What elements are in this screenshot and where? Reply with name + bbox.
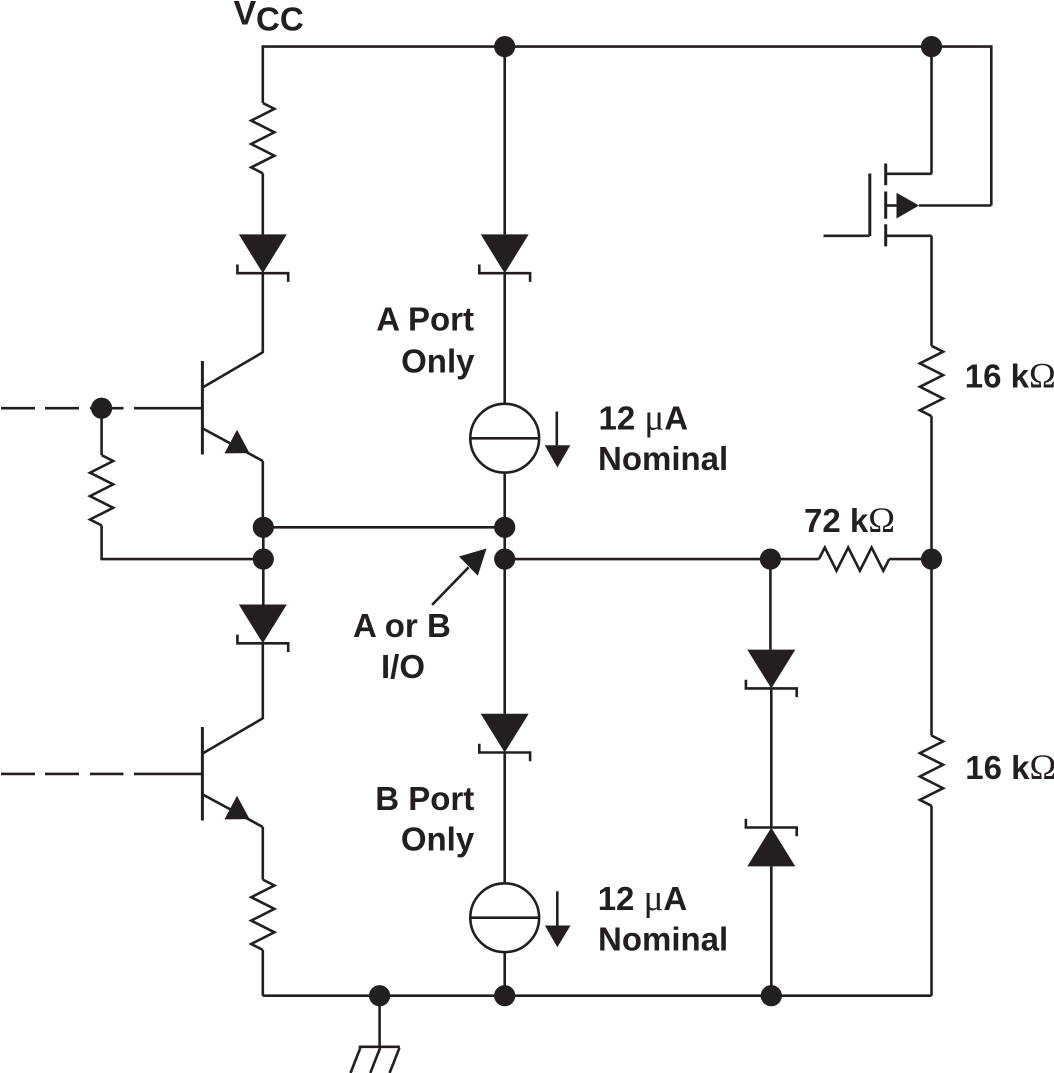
svg-text:12 μA: 12 μA — [598, 878, 688, 919]
svg-text:I/O: I/O — [381, 648, 425, 685]
transistor M1 (p-channel MOSFET) — [824, 164, 932, 247]
diode D4 (Schottky, B port) — [479, 714, 530, 762]
wire input dashed upper — [1, 407, 124, 410]
resistor R1 — [251, 103, 274, 173]
label 12 uA Nominal (A) — [598, 398, 728, 477]
wire R2 to lower node row — [102, 525, 264, 559]
ground — [351, 996, 400, 1073]
wire middle node down to D4 — [503, 559, 506, 714]
wire D1 to Q1 collector — [261, 273, 264, 353]
wire between left nodes down to D3 — [262, 527, 265, 604]
node junction ground — [369, 985, 390, 1006]
diode D6 (Schottky, up) — [746, 819, 797, 867]
label A Port Only — [376, 301, 475, 380]
node junction left lower — [253, 549, 274, 570]
diode D2 (Schottky, A port) — [479, 234, 530, 282]
wire D3 to Q2 collector — [261, 643, 264, 719]
wire R1 to D1 — [261, 173, 264, 234]
wire body to VCC loop — [919, 45, 991, 205]
wire right node down to D5 — [769, 559, 772, 650]
wire middle nodes vertical — [503, 527, 506, 559]
diode D3 (Schottky, anode up) — [237, 605, 288, 653]
svg-text:Only: Only — [401, 821, 475, 858]
label B Port Only — [375, 780, 475, 858]
svg-text:CC: CC — [256, 1, 304, 38]
wire input dashed lower — [1, 773, 124, 776]
resistor R6 (72k horizontal) — [819, 548, 889, 571]
arrow A or B I/O pointer — [432, 549, 486, 605]
svg-text:16 kΩ: 16 kΩ — [965, 747, 1054, 787]
wire VCC top rail — [263, 45, 992, 48]
wire Q2 emitter down to R5 — [261, 827, 264, 880]
label 12 uA Nominal (B) — [598, 878, 728, 957]
resistor R5 — [251, 880, 274, 950]
wire R3 to right node — [930, 416, 933, 559]
svg-text:12 μA: 12 μA — [599, 398, 689, 439]
wire M1 source to R3 — [930, 236, 933, 346]
wire right node down to R4 — [930, 559, 933, 735]
current source CS1 — [470, 404, 539, 473]
wire Q1 emitter down — [261, 461, 264, 527]
node input upper junction — [91, 398, 112, 419]
node junction top right — [921, 36, 942, 57]
wire base lead Q1 — [134, 407, 202, 410]
wire base lead Q2 — [134, 773, 202, 776]
label A or B I/O — [353, 607, 451, 685]
transistor Q2 (PNP lower) — [202, 718, 262, 827]
node junction middle upper — [494, 517, 515, 538]
svg-text:16 kΩ: 16 kΩ — [965, 356, 1054, 396]
current source CS2 — [470, 883, 539, 952]
arrow current direction CS1 — [545, 412, 571, 468]
node junction right mid right — [921, 549, 942, 570]
wire upper crossbar — [263, 526, 504, 529]
svg-text:Nominal: Nominal — [598, 921, 728, 958]
svg-text:A Port: A Port — [376, 301, 474, 338]
wire CS2 to bottom rail — [503, 952, 506, 996]
wire VCC to D2 — [503, 47, 506, 235]
diode D5 (Schottky, down) — [746, 650, 797, 698]
node junction bottom middle — [494, 985, 515, 1006]
wire lower crossbar to right — [505, 558, 771, 561]
wire R5 to bottom rail — [261, 950, 264, 996]
resistor R4 — [920, 736, 943, 806]
wire VCC right down to M1 drain — [930, 47, 933, 174]
resistor R3 — [920, 346, 943, 416]
diode D1 (Schottky, anode up) — [237, 234, 288, 282]
wire R4 to bottom rail — [930, 806, 933, 996]
wire VCC down to R1 — [261, 45, 264, 103]
wire left lead R6 — [770, 558, 819, 561]
node junction right mid left — [760, 549, 781, 570]
svg-text:Nominal: Nominal — [598, 440, 728, 477]
node junction middle lower — [494, 549, 515, 570]
wire D5 to D6 — [770, 688, 773, 827]
wire CS1 to middle nodes — [503, 473, 506, 528]
wire D4 to CS2 — [503, 753, 506, 884]
transistor Q1 (NPN upper) — [202, 352, 262, 461]
svg-text:V: V — [234, 0, 257, 33]
svg-text:72 kΩ: 72 kΩ — [804, 500, 895, 540]
resistor R2 — [90, 455, 113, 525]
node junction top middle — [494, 36, 515, 57]
wire bottom rail — [263, 994, 932, 997]
wire node to R2 — [100, 408, 103, 455]
svg-text:Only: Only — [401, 343, 475, 380]
wire D2 to CS1 — [503, 273, 506, 404]
svg-text:B Port: B Port — [375, 780, 474, 817]
node junction bottom right — [761, 985, 782, 1006]
svg-text:A or B: A or B — [353, 607, 451, 644]
wire D6 to bottom rail — [770, 866, 773, 995]
arrow current direction CS2 — [545, 891, 571, 947]
node junction left upper — [253, 517, 274, 538]
net VCC label — [234, 0, 304, 38]
wire right lead R6 — [889, 558, 931, 561]
